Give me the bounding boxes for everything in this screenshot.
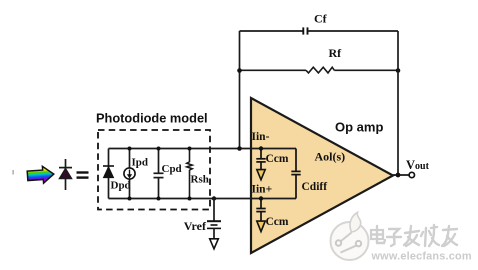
node: Vref branch junction [212,196,216,200]
svg-text:Vout: Vout [406,158,430,172]
友 [442,226,457,246]
wire: feedback right leg [397,31,399,175]
wire: feedback left leg [239,31,241,149]
resistor Rsh branch wire [187,149,192,199]
capacitor Ccm lower [256,199,265,221]
svg-text:Aol(s): Aol(s) [315,150,346,164]
子 [387,229,401,246]
wire: bottom rail / non-inverting input (Iin+ net) [109,198,297,200]
node: Cpd top junction [157,147,161,151]
电 [371,226,385,243]
svg-text:Iin+: Iin+ [252,184,273,196]
voltage source Vref battery [207,221,221,228]
ground arrow below upper Ccm [257,170,265,180]
capacitor Cpd branch wire [154,149,164,199]
node: output junction [396,173,401,178]
diode Dpd branch wire [108,149,110,199]
terminal: Vout open circle [409,172,414,177]
op-amp U1 triangle [251,98,393,253]
烧 [421,225,439,246]
wire + resistor Rf line [240,67,399,73]
capacitor Cf [303,27,307,34]
svg-text:Ccm: Ccm [266,216,289,228]
rainbow light arrow [27,166,54,185]
wire: Vref stem [213,228,215,238]
wire: top rail / inverting input (Iin- net) [109,148,297,150]
node: Ccm upper junction [259,146,263,150]
svg-text:Ccm: Ccm [266,153,289,165]
node: Ipd bottom junction [128,197,132,201]
wire: Vref branch [213,199,215,221]
equals sign [77,171,89,178]
stray scan mark [13,170,14,175]
svg-text:Op amp: Op amp [335,120,383,135]
photodiode symbol (left) [59,159,72,190]
current source Ipd branch wire [129,149,131,199]
capacitor Ccm upper [256,149,265,170]
svg-text:Vref: Vref [184,219,207,233]
svg-text:Rf: Rf [329,46,343,60]
photodiode model dashed box [98,130,210,210]
ground arrow below Vref [210,239,219,249]
svg-text:Iin-: Iin- [252,131,270,143]
svg-text:Rsh: Rsh [191,174,209,186]
wire: Cf top line [240,30,399,32]
wire: output [393,174,409,176]
svg-text:Ipd: Ipd [132,157,149,169]
node: Cpd bottom junction [157,197,161,201]
node: Rf right junction [396,68,401,73]
node: Rsh bottom junction [188,197,192,201]
node: Ccm lower junction [259,196,263,200]
svg-text:Photodiode model: Photodiode model [96,111,208,126]
svg-text:Cpd: Cpd [162,163,182,175]
node: Rsh top junction [188,147,192,151]
node: Rf left junction [237,68,242,73]
watermark chinese text 电子发烧友 [371,225,457,246]
node: Ipd top junction [128,147,132,151]
svg-text:Cdiff: Cdiff [302,181,328,193]
svg-text:www.elecfans.com: www.elecfans.com [371,251,472,263]
ground arrow below lower Ccm [257,221,265,232]
node: inverting input junction [237,146,242,151]
svg-text:Dpd: Dpd [111,180,131,192]
capacitor Cdiff [291,149,300,199]
svg-text:Cf: Cf [314,12,328,26]
发 [404,226,419,246]
current source Ipd [124,168,135,179]
diode Dpd [103,166,114,178]
watermark logo circle [331,213,369,261]
